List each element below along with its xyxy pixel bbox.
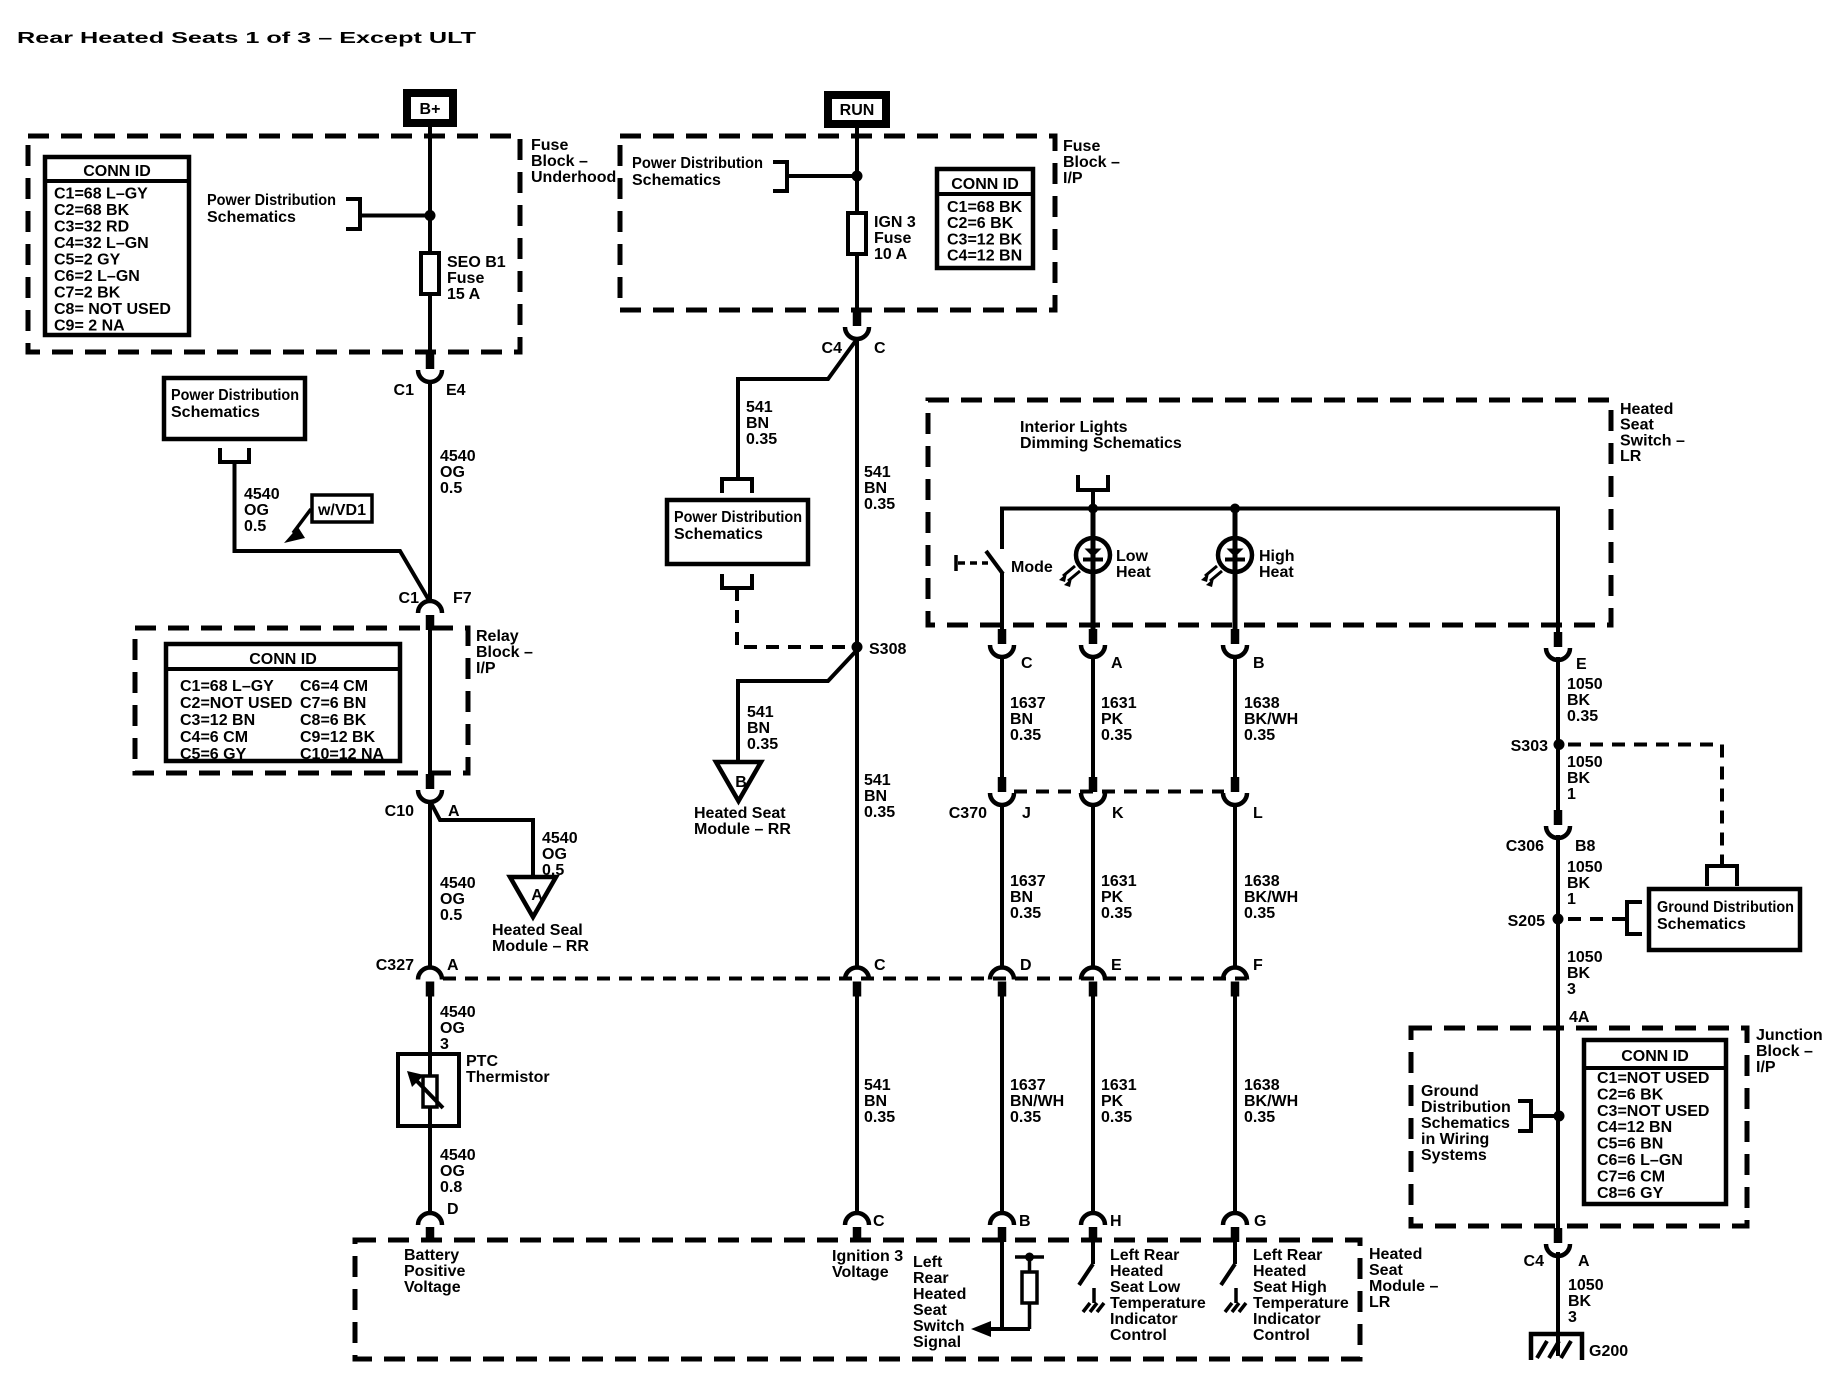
svg-text:Schematics: Schematics [207, 209, 296, 226]
svg-text:C4=32 L–GN: C4=32 L–GN [54, 235, 149, 252]
wire E to H [1091, 996, 1095, 1213]
svg-text:3: 3 [1567, 981, 1576, 998]
connector C4/A (ground) [1546, 1228, 1570, 1256]
svg-text:Seat Low: Seat Low [1110, 1279, 1181, 1296]
connector F (C327 row) [1223, 968, 1247, 997]
svg-text:C1: C1 [399, 590, 420, 607]
svg-text:0.5: 0.5 [440, 907, 462, 924]
svg-text:Low: Low [1116, 548, 1149, 565]
conn id table (fuse block underhood) [45, 157, 189, 335]
wire branch to heated seat module RR (A) [430, 801, 533, 878]
svg-text:1050: 1050 [1567, 754, 1603, 771]
svg-text:0.35: 0.35 [1010, 727, 1041, 744]
svg-text:I/P: I/P [476, 660, 496, 677]
label 1637 BN 0.35 (lower) [1010, 873, 1046, 922]
svg-text:541: 541 [864, 1077, 891, 1094]
svg-text:0.35: 0.35 [1010, 1109, 1041, 1126]
svg-text:Switch: Switch [913, 1318, 965, 1335]
label 4540 OG 0.5 (RR branch) [542, 830, 578, 879]
svg-text:Rear Heated Seats 1 of 3 – Exc: Rear Heated Seats 1 of 3 – Except ULT [17, 30, 476, 47]
label 1637 BN/WH 0.35 [1010, 1077, 1064, 1126]
wire RUN down to fuse IGN 3 [855, 125, 859, 215]
svg-text:BN: BN [1010, 711, 1033, 728]
connector C1/F7 [418, 601, 442, 630]
power terminal B+ [403, 89, 457, 127]
svg-text:CONN ID: CONN ID [83, 163, 151, 180]
svg-text:Heat: Heat [1259, 564, 1294, 581]
label IGN 3 fuse 10 A [874, 214, 916, 263]
svg-text:F7: F7 [453, 590, 472, 607]
label fuse block I/P [1063, 138, 1120, 187]
label 1638 BK/WH 0.35 [1244, 695, 1298, 744]
svg-text:C4: C4 [1524, 1253, 1545, 1270]
label 1050 BK 1 (below C306) [1567, 859, 1603, 908]
label ground distribution schematics in wiring systems [1421, 1083, 1511, 1164]
svg-text:1: 1 [1567, 786, 1576, 803]
label 541 BN 0.35 (branch) [746, 399, 777, 448]
svg-text:Heat: Heat [1116, 564, 1151, 581]
wire 1638 BK/WH (high) to C370 [1233, 656, 1237, 777]
svg-text:Left Rear: Left Rear [1253, 1247, 1322, 1264]
dashed wire to S308 [737, 588, 851, 647]
svg-text:0.35: 0.35 [1244, 1109, 1275, 1126]
connector C370 L [1223, 777, 1247, 805]
label battery positive voltage [404, 1247, 465, 1296]
node S303 [1554, 739, 1565, 750]
svg-text:Seat: Seat [913, 1302, 947, 1319]
dashed connector line C370 [1014, 790, 1224, 794]
svg-text:Indicator: Indicator [1110, 1311, 1178, 1328]
label PTC thermistor [466, 1053, 550, 1086]
svg-text:L: L [1253, 805, 1263, 822]
svg-text:1638: 1638 [1244, 1077, 1280, 1094]
low temperature indicator switch [1079, 1241, 1104, 1312]
svg-text:0.5: 0.5 [440, 480, 462, 497]
svg-text:B: B [735, 774, 747, 791]
wire J to D [1000, 803, 1004, 968]
wire ignition 3 main run [855, 339, 859, 968]
label 1050 BK 0.35 [1567, 676, 1603, 725]
svg-text:BN: BN [1010, 889, 1033, 906]
svg-text:in Wiring: in Wiring [1421, 1131, 1489, 1148]
label 4540 OG 0.5 (branch) [244, 486, 280, 535]
svg-text:C4=12 BN: C4=12 BN [1597, 1119, 1672, 1136]
svg-text:C6=6 L–GN: C6=6 L–GN [1597, 1152, 1683, 1169]
svg-text:D: D [447, 1201, 459, 1218]
wire C4 to G200 [1556, 1252, 1560, 1356]
svg-text:Schematics: Schematics [632, 172, 721, 189]
svg-text:OG: OG [440, 1163, 465, 1180]
svg-text:Power Distribution: Power Distribution [632, 155, 763, 172]
svg-text:Rear: Rear [913, 1270, 949, 1287]
dashed wire S205 to ground distribution [1568, 917, 1627, 921]
svg-text:Mode: Mode [1011, 559, 1053, 576]
svg-text:BN: BN [746, 415, 769, 432]
svg-text:1050: 1050 [1567, 859, 1603, 876]
svg-text:Seat High: Seat High [1253, 1279, 1327, 1296]
svg-text:541: 541 [864, 772, 891, 789]
svg-text:E4: E4 [446, 382, 466, 399]
label 541 BN 0.35 (upper) [864, 464, 895, 513]
svg-text:E: E [1111, 957, 1122, 974]
relay block - I/P box [135, 628, 468, 773]
svg-text:C: C [873, 1213, 885, 1230]
svg-text:K: K [1112, 805, 1124, 822]
svg-text:10 A: 10 A [874, 246, 908, 263]
connector C (mode) [990, 629, 1014, 657]
off-page triangle A (heated seat module RR) [510, 877, 556, 917]
svg-text:15 A: 15 A [447, 286, 481, 303]
svg-text:Ignition 3: Ignition 3 [832, 1248, 903, 1265]
label 541 BN 0.35 (module RR) [747, 704, 778, 753]
svg-text:BN: BN [864, 480, 887, 497]
fuse SEO B1 15A [421, 253, 439, 294]
svg-text:C6=4 CM: C6=4 CM [300, 678, 368, 695]
svg-text:Seat: Seat [1620, 417, 1654, 434]
wire bracket to ground run [1531, 1114, 1555, 1118]
svg-text:541: 541 [746, 399, 773, 416]
indicator LED high heat [1201, 508, 1252, 630]
connector D (C327 row) [990, 968, 1014, 997]
svg-text:0.35: 0.35 [1244, 727, 1275, 744]
wire D to B [1000, 996, 1004, 1213]
svg-text:1631: 1631 [1101, 873, 1137, 890]
svg-text:C4: C4 [822, 340, 843, 357]
svg-text:Heated Seal: Heated Seal [492, 922, 583, 939]
bracket left of ground distribution box [1627, 902, 1642, 934]
label high heat [1259, 548, 1295, 581]
svg-text:BK: BK [1567, 692, 1591, 709]
svg-text:C7=6 CM: C7=6 CM [1597, 1168, 1665, 1185]
fuse block - underhood box [28, 136, 520, 352]
svg-text:C2=68 BK: C2=68 BK [54, 202, 130, 219]
svg-text:OG: OG [244, 502, 269, 519]
svg-text:C1=68 L–GY: C1=68 L–GY [54, 186, 148, 203]
svg-text:B: B [1253, 655, 1265, 672]
svg-text:BK/WH: BK/WH [1244, 1093, 1298, 1110]
svg-text:CONN ID: CONN ID [951, 176, 1019, 193]
heated seat module - LR box [355, 1240, 1360, 1359]
svg-text:0.35: 0.35 [864, 496, 895, 513]
svg-text:D: D [1020, 957, 1032, 974]
svg-text:3: 3 [440, 1036, 449, 1053]
svg-text:Schematics: Schematics [674, 526, 763, 543]
svg-text:C: C [1021, 655, 1033, 672]
svg-text:Interior Lights: Interior Lights [1020, 419, 1128, 436]
svg-text:541: 541 [747, 704, 774, 721]
reference bracket (power distribution) [346, 199, 360, 229]
svg-text:PK: PK [1101, 889, 1124, 906]
label power distribution schematics [207, 192, 336, 226]
svg-text:Systems: Systems [1421, 1147, 1487, 1164]
svg-text:1050: 1050 [1567, 949, 1603, 966]
label left rear heated seat low temperature indicator control [1110, 1247, 1206, 1344]
svg-text:C1=68 BK: C1=68 BK [947, 199, 1023, 216]
svg-text:Fuse: Fuse [874, 230, 911, 247]
svg-text:Signal: Signal [913, 1334, 961, 1351]
svg-text:PK: PK [1101, 711, 1124, 728]
svg-text:Schematics: Schematics [1421, 1115, 1510, 1132]
power distribution schematics box (left) [164, 378, 305, 439]
svg-text:A: A [447, 957, 459, 974]
svg-text:Module –: Module – [1369, 1278, 1438, 1295]
wire fuse to connector C4/C [855, 254, 859, 311]
wire F7 to C10 [428, 630, 432, 774]
svg-text:C9=12 BK: C9=12 BK [300, 729, 376, 746]
svg-text:Block –: Block – [531, 153, 588, 170]
connector C1/E4 [418, 354, 442, 382]
svg-text:B8: B8 [1575, 838, 1596, 855]
wire mode switch to connector C [1000, 572, 1004, 630]
svg-text:4A: 4A [1569, 1009, 1590, 1026]
svg-text:Relay: Relay [476, 628, 519, 645]
svg-text:C10: C10 [385, 803, 414, 820]
svg-text:Schematics: Schematics [171, 404, 260, 421]
conn id table (junction block) [1584, 1040, 1726, 1204]
svg-text:C4=12 BN: C4=12 BN [947, 248, 1022, 265]
node: bus junction at low heat [1088, 504, 1098, 514]
svg-text:C2=6 BK: C2=6 BK [947, 215, 1014, 232]
wire to connector C (module LR) [855, 996, 859, 1213]
svg-text:Block –: Block – [1756, 1043, 1813, 1060]
svg-text:Block –: Block – [476, 644, 533, 661]
svg-text:Thermistor: Thermistor [466, 1069, 550, 1086]
connector C (ignition 3 voltage) [845, 1213, 869, 1242]
label heated seal module RR [492, 922, 589, 955]
svg-text:C7=2 BK: C7=2 BK [54, 285, 121, 302]
svg-text:4540: 4540 [542, 830, 578, 847]
junction block - I/P box [1411, 1028, 1747, 1226]
svg-text:IGN 3: IGN 3 [874, 214, 916, 231]
svg-text:A: A [1111, 655, 1123, 672]
svg-text:C5=2 GY: C5=2 GY [54, 252, 121, 269]
label fuse block underhood [531, 137, 616, 186]
svg-text:J: J [1022, 805, 1031, 822]
svg-text:4540: 4540 [440, 1147, 476, 1164]
svg-text:1638: 1638 [1244, 695, 1280, 712]
label relay block I/P [476, 628, 533, 677]
wire E to S303 [1556, 657, 1560, 810]
bracket interior lights reference [1078, 475, 1108, 490]
label 541 BN 0.35 (mid) [864, 772, 895, 821]
svg-text:541: 541 [864, 464, 891, 481]
svg-text:C2=NOT USED: C2=NOT USED [180, 695, 292, 712]
svg-text:BK: BK [1568, 1293, 1592, 1310]
svg-text:PK: PK [1101, 1093, 1124, 1110]
dashed connector line C327 row [443, 977, 1247, 981]
svg-text:0.35: 0.35 [1010, 905, 1041, 922]
svg-text:BN: BN [864, 1093, 887, 1110]
indicator LED low heat [1059, 510, 1110, 630]
svg-text:0.35: 0.35 [746, 431, 777, 448]
svg-text:Indicator: Indicator [1253, 1311, 1321, 1328]
wire C10 to C327 [428, 801, 432, 968]
svg-text:Fuse: Fuse [1063, 138, 1100, 155]
label 1050 BK 3 [1567, 949, 1603, 998]
svg-text:C327: C327 [376, 957, 414, 974]
connector C327/A [418, 968, 442, 997]
wire fuse to connector C1/E4 [428, 294, 432, 354]
connector C (C327 row) [845, 968, 869, 997]
svg-text:0.35: 0.35 [747, 736, 778, 753]
node S205 [1553, 914, 1564, 925]
svg-text:Control: Control [1110, 1327, 1167, 1344]
svg-text:C5=6 GY: C5=6 GY [180, 746, 247, 763]
svg-text:1638: 1638 [1244, 873, 1280, 890]
svg-text:Positive: Positive [404, 1263, 465, 1280]
svg-text:OG: OG [440, 464, 465, 481]
off-page triangle B (heated seat module RR) [716, 762, 761, 801]
svg-text:B: B [1019, 1213, 1031, 1230]
connector C306/B8 [1546, 810, 1570, 838]
wire 541 branch to power distribution [738, 339, 857, 479]
wire 1637 BN (mode) to C370 [1000, 656, 1004, 777]
wire C306 to S205 [1556, 835, 1560, 1028]
connector A (low heat) [1081, 629, 1105, 657]
svg-text:4540: 4540 [244, 486, 280, 503]
connector E (C327 row) [1081, 968, 1105, 997]
label low heat [1116, 548, 1151, 581]
svg-text:OG: OG [440, 1020, 465, 1037]
power distribution schematics box (middle) [667, 500, 808, 564]
switch feed bus [1002, 509, 1558, 634]
svg-text:High: High [1259, 548, 1295, 565]
svg-text:C3=12 BN: C3=12 BN [180, 712, 255, 729]
label 1631 PK 0.35 [1101, 695, 1137, 744]
svg-text:Junction: Junction [1756, 1027, 1823, 1044]
svg-text:S308: S308 [869, 641, 906, 658]
wire C327 to PTC thermistor [428, 996, 432, 1213]
svg-text:I/P: I/P [1063, 170, 1083, 187]
svg-text:C306: C306 [1506, 838, 1544, 855]
svg-text:C7=6 BN: C7=6 BN [300, 695, 366, 712]
svg-text:H: H [1110, 1213, 1122, 1230]
svg-text:Heated: Heated [1620, 401, 1673, 418]
svg-text:Ground: Ground [1421, 1083, 1479, 1100]
svg-text:BN: BN [864, 788, 887, 805]
svg-text:C9= 2 NA: C9= 2 NA [54, 318, 125, 335]
wire to power distribution reference [360, 214, 426, 218]
label SEO B1 fuse 15 A [447, 254, 506, 303]
connector C370 J [990, 777, 1014, 805]
wire 1631 PK (low) to C370 [1091, 656, 1095, 777]
fuse block - I/P box [620, 136, 1055, 310]
svg-text:Module – RR: Module – RR [694, 821, 791, 838]
svg-text:w/VD1: w/VD1 [317, 502, 366, 519]
svg-text:0.35: 0.35 [864, 804, 895, 821]
node: junction at power distribution tap [425, 210, 436, 221]
svg-text:3: 3 [1568, 1309, 1577, 1326]
svg-text:1637: 1637 [1010, 695, 1046, 712]
svg-text:Underhood: Underhood [531, 169, 616, 186]
svg-text:Fuse: Fuse [447, 270, 484, 287]
svg-text:Battery: Battery [404, 1247, 459, 1264]
conn id table (relay block) [166, 644, 400, 763]
svg-text:C1=NOT USED: C1=NOT USED [1597, 1070, 1709, 1087]
label 4540 OG 3 [440, 1004, 476, 1053]
svg-text:C3=32 RD: C3=32 RD [54, 219, 129, 236]
svg-text:SEO B1: SEO B1 [447, 254, 506, 271]
connector C10/A [418, 774, 442, 802]
bracket ground distribution reference [1518, 1101, 1531, 1131]
svg-text:CONN ID: CONN ID [1621, 1048, 1689, 1065]
label 1631 PK 0.35 (bottom) [1101, 1077, 1137, 1126]
svg-text:4540: 4540 [440, 448, 476, 465]
node: junction at ground reference [1554, 1111, 1565, 1122]
svg-text:I/P: I/P [1756, 1059, 1776, 1076]
svg-text:0.35: 0.35 [1101, 905, 1132, 922]
wire F to G [1233, 996, 1237, 1213]
label 1637 BN 0.35 [1010, 695, 1046, 744]
conn id table (fuse block I/P) [937, 169, 1033, 268]
svg-text:PTC: PTC [466, 1053, 498, 1070]
connector D (battery positive voltage) [418, 1213, 442, 1242]
label heated seat switch LR [1620, 401, 1685, 465]
svg-text:Seat: Seat [1369, 1262, 1403, 1279]
wire E4 to F7 [428, 382, 432, 601]
label interior lights dimming schematics [1020, 419, 1182, 452]
svg-text:0.8: 0.8 [440, 1179, 462, 1196]
wire S308 branch to triangle B [738, 650, 857, 763]
svg-text:C1: C1 [394, 382, 415, 399]
svg-text:Heated: Heated [1369, 1246, 1422, 1263]
label 541 BN 0.35 (lower) [864, 1077, 895, 1126]
label 4540 OG 0.5 [440, 448, 476, 497]
svg-text:RUN: RUN [840, 102, 875, 119]
w/VD1 flag box and arrow [284, 495, 372, 543]
bracket above ground distribution box [1707, 866, 1737, 886]
connector B (high heat) [1223, 629, 1247, 657]
svg-text:S205: S205 [1508, 913, 1545, 930]
svg-text:C370: C370 [949, 805, 987, 822]
fuse IGN 3 10A [848, 213, 866, 254]
svg-text:Switch –: Switch – [1620, 432, 1685, 449]
svg-text:0.35: 0.35 [1101, 727, 1132, 744]
svg-text:BK/WH: BK/WH [1244, 889, 1298, 906]
node S308 [852, 642, 863, 653]
svg-text:C2=6 BK: C2=6 BK [1597, 1086, 1664, 1103]
svg-text:1637: 1637 [1010, 873, 1046, 890]
wire bracket to run feed [787, 174, 853, 178]
ground G200 [1531, 1334, 1582, 1360]
label left rear heated seat switch signal [913, 1254, 966, 1351]
svg-text:1050: 1050 [1567, 676, 1603, 693]
svg-text:1631: 1631 [1101, 695, 1137, 712]
reference bracket (run) [773, 162, 787, 191]
svg-text:S303: S303 [1511, 738, 1548, 755]
svg-text:BK: BK [1567, 875, 1591, 892]
svg-text:1637: 1637 [1010, 1077, 1046, 1094]
connector B (switch signal) [990, 1213, 1014, 1242]
svg-text:4540: 4540 [440, 875, 476, 892]
svg-text:0.35: 0.35 [1567, 708, 1598, 725]
connector G (high temp indicator) [1223, 1213, 1247, 1242]
svg-text:C6=2 L–GN: C6=2 L–GN [54, 268, 140, 285]
svg-text:C: C [874, 340, 886, 357]
svg-text:Voltage: Voltage [404, 1279, 461, 1296]
svg-text:0.35: 0.35 [1244, 905, 1275, 922]
power terminal RUN [824, 91, 890, 128]
svg-text:Power Distribution: Power Distribution [171, 387, 299, 404]
wire junction block run [1556, 1028, 1560, 1228]
svg-text:Power Distribution: Power Distribution [674, 509, 802, 526]
svg-text:BK: BK [1567, 965, 1591, 982]
label 1638 BK/WH 0.35 (bottom) [1244, 1077, 1298, 1126]
svg-text:Ground Distribution: Ground Distribution [1657, 899, 1794, 916]
svg-text:BN: BN [747, 720, 770, 737]
svg-text:OG: OG [542, 846, 567, 863]
svg-text:A: A [531, 887, 543, 904]
